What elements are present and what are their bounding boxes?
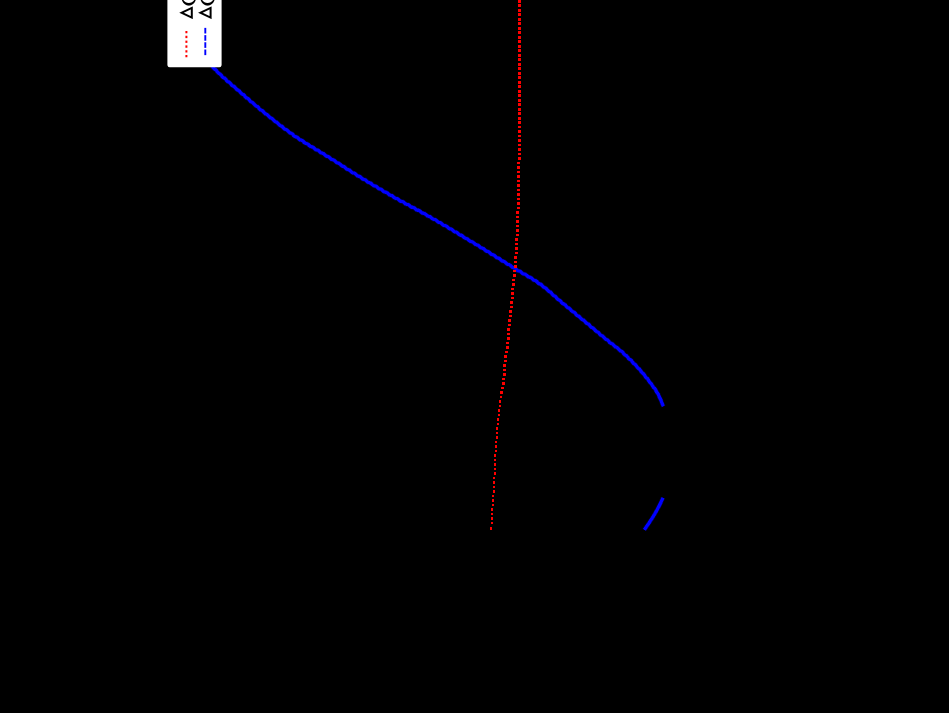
blue dashed curve, lower re-entrant branch xyxy=(644,498,663,530)
legend red dotted sample xyxy=(185,31,187,57)
legend label 1 (red entry): rotated glyph Delta xyxy=(182,8,192,18)
blue dashed curve, main branch (soft halo underlay) xyxy=(175,0,664,406)
red dotted curve xyxy=(490,0,521,530)
legend label 2 (blue entry): rotated glyph Delta xyxy=(200,8,210,18)
legend label 1 (red entry): rotated glyph open-paren xyxy=(182,0,196,6)
legend label 2 (blue entry): rotated glyph open-paren xyxy=(201,0,215,6)
legend blue dashed sample xyxy=(204,28,206,57)
blue dashed curve, main branch xyxy=(175,0,664,406)
legend box xyxy=(167,0,221,67)
blue dashed curve, lower re-entrant branch (soft halo underlay) xyxy=(644,498,663,530)
